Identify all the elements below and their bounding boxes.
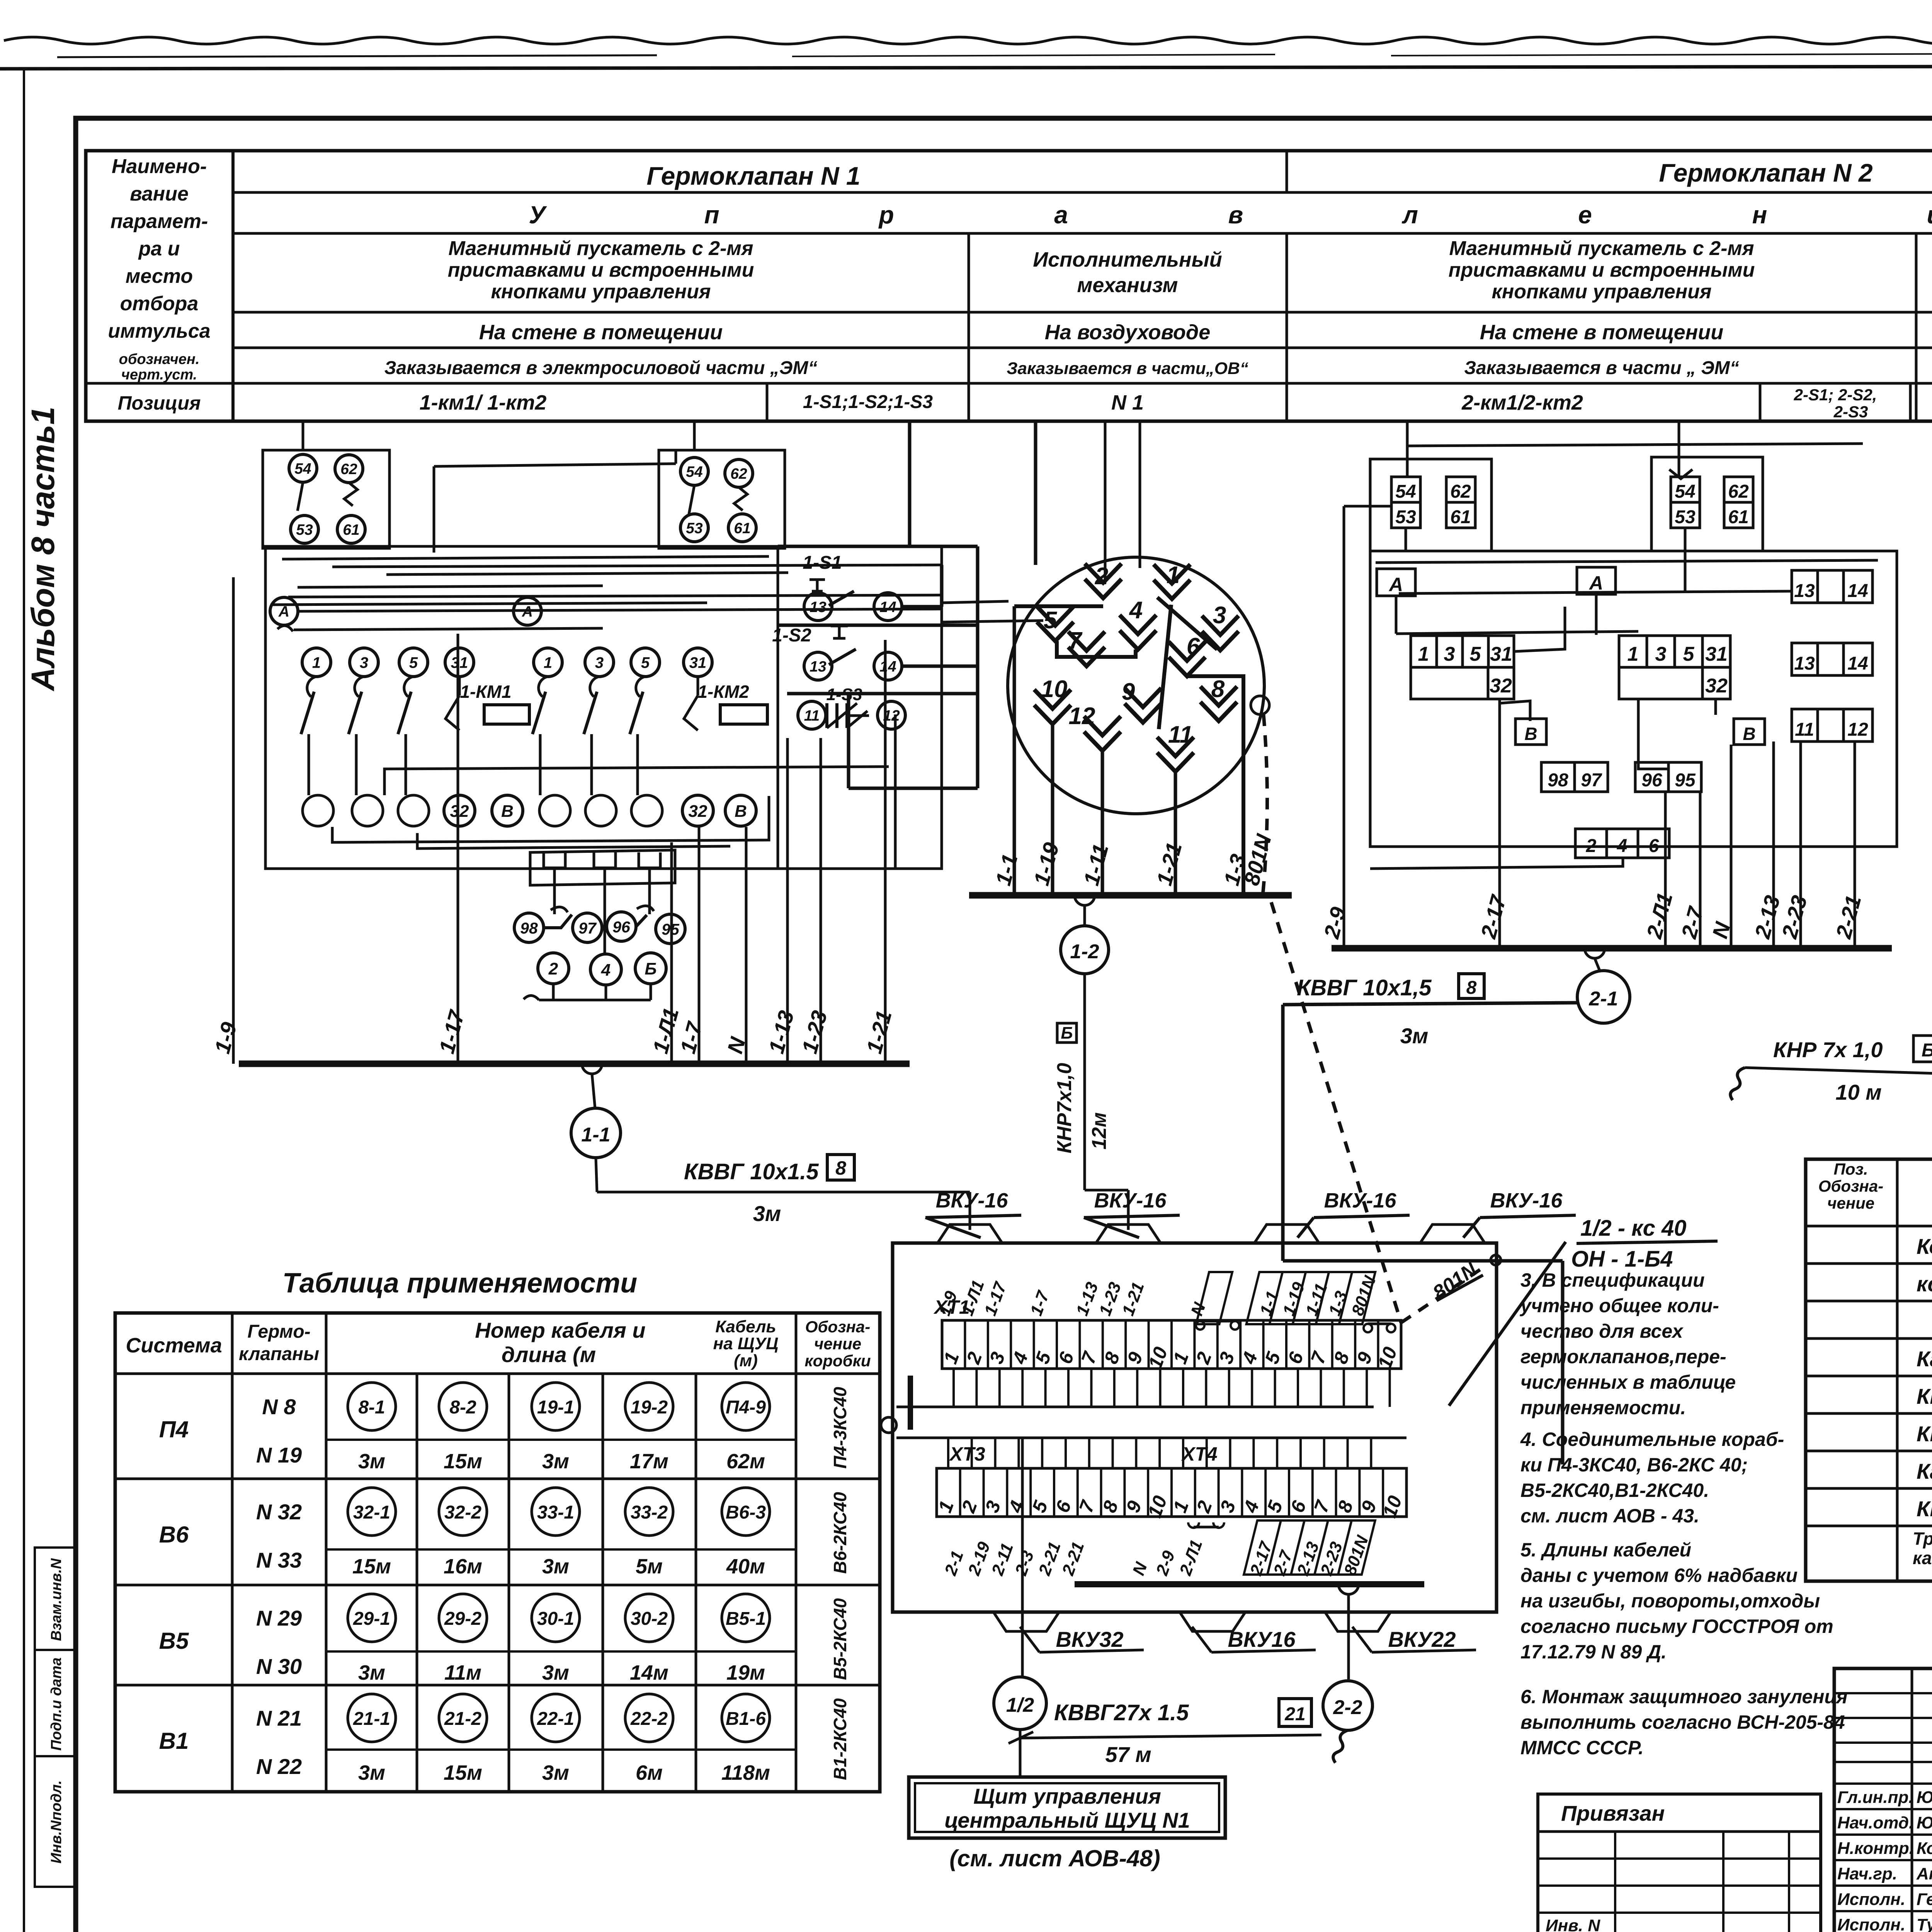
- svg-text:96: 96: [1641, 770, 1662, 791]
- svg-text:Заказывается в части „ ЭМ“: Заказывается в части „ ЭМ“: [1464, 358, 1739, 378]
- XT3 wires up: [947, 1438, 949, 1468]
- N2 13-14 row1: [1792, 570, 1872, 603]
- svg-text:54: 54: [1675, 481, 1695, 502]
- svg-text:кнопками управления: кнопками управления: [1492, 281, 1711, 303]
- svg-text:32: 32: [1705, 675, 1728, 697]
- N2 left enclosure: [1370, 459, 1492, 551]
- N2 V box 2: [1734, 719, 1765, 745]
- XT3-XT4 strip: [937, 1468, 1406, 1517]
- svg-text:Поз.: Поз.: [1834, 1160, 1868, 1178]
- cable circle 2-2 lower: [1323, 1681, 1372, 1730]
- svg-text:В5-2КС40,В1-2КС40.: В5-2КС40,В1-2КС40.: [1520, 1480, 1709, 1501]
- svg-text:3: 3: [1655, 643, 1667, 665]
- svg-text:11: 11: [804, 707, 820, 724]
- svg-text:61: 61: [343, 522, 359, 538]
- x mark on 1-2 wire: [1009, 1732, 1033, 1743]
- svg-text:Гермо-: Гермо-: [247, 1321, 310, 1342]
- svg-text:КВВГ 10х1,5: КВВГ 10х1,5: [1297, 975, 1432, 1000]
- svg-text:Козлов: Козлов: [1917, 1839, 1932, 1858]
- svg-text:Позиция: Позиция: [118, 392, 201, 414]
- svg-text:КВВГ27х 1.5: КВВГ27х 1.5: [1054, 1700, 1189, 1725]
- title block upper rows: [1834, 1692, 1932, 1694]
- svg-text:1: 1: [1418, 643, 1429, 665]
- svg-text:обозначен.: обозначен.: [119, 351, 200, 367]
- svg-text:54: 54: [1395, 481, 1416, 502]
- svg-text:17.12.79 N 89 Д.: 17.12.79 N 89 Д.: [1520, 1641, 1667, 1663]
- svg-text:15м: 15м: [352, 1555, 391, 1578]
- XT1 boxed labels right group: [1196, 1272, 1376, 1324]
- svg-text:А: А: [278, 604, 289, 620]
- N1 long wires to bus: [232, 577, 235, 1064]
- svg-text:30-2: 30-2: [631, 1609, 668, 1629]
- privyazan stamp box: [1538, 1794, 1821, 1932]
- cable 1-2 wire down: [1083, 974, 1086, 1190]
- svg-text:вание: вание: [130, 183, 189, 205]
- svg-text:N 1: N 1: [1111, 391, 1144, 414]
- svg-text:имтульса: имтульса: [108, 320, 210, 342]
- N2 bus: [1332, 945, 1892, 952]
- svg-text:черт.уст.: черт.уст.: [121, 367, 197, 383]
- svg-text:10 м: 10 м: [1835, 1080, 1881, 1104]
- XT1 jumpers: [1196, 1321, 1204, 1330]
- svg-text:9: 9: [1122, 679, 1135, 705]
- svg-text:В: В: [735, 802, 747, 821]
- svg-text:33-1: 33-1: [537, 1502, 574, 1523]
- svg-text:центральный ЩУЦ N1: центральный ЩУЦ N1: [944, 1808, 1190, 1832]
- junction inner bus: [1075, 1581, 1424, 1587]
- XT1 wires down: [952, 1369, 955, 1407]
- svg-text:Исполн.: Исполн.: [1837, 1915, 1905, 1932]
- svg-text:31: 31: [689, 654, 707, 671]
- svg-text:Б: Б: [1061, 1024, 1073, 1043]
- svg-text:62м: 62м: [726, 1450, 765, 1473]
- connector1 pin 8 arrow: [1201, 687, 1237, 721]
- svg-text:3. В спецификации: 3. В спецификации: [1520, 1269, 1705, 1291]
- N2 top wire: [1407, 444, 1863, 446]
- VKU32 trapezoid: [993, 1612, 1059, 1631]
- N2 A box 1: [1377, 569, 1415, 596]
- svg-text:На воздуховоде: На воздуховоде: [1045, 321, 1211, 344]
- svg-text:98: 98: [1548, 770, 1568, 791]
- N1 node A right: [514, 597, 541, 625]
- svg-text:2: 2: [548, 959, 558, 978]
- connector1 pin 12 arrow: [1084, 716, 1121, 751]
- svg-text:КВВГ 10х1.5: КВВГ 10х1.5: [1917, 1384, 1932, 1408]
- svg-text:П4-3КС40: П4-3КС40: [830, 1387, 850, 1469]
- N1 wire mesh horizontals: [282, 556, 769, 559]
- connector1 dashed 801N: [1263, 714, 1267, 895]
- svg-text:ката ТВ-40-230-25 х 1.15ГОСТ 1: ката ТВ-40-230-25 х 1.15ГОСТ 19034-82: [1913, 1548, 1932, 1568]
- svg-text:В5-1: В5-1: [726, 1609, 766, 1629]
- svg-text:32: 32: [450, 802, 469, 821]
- svg-text:А: А: [1588, 572, 1603, 594]
- svg-text:14: 14: [1847, 653, 1868, 674]
- junction left bar: [908, 1376, 913, 1430]
- N2 internal wires: [1498, 699, 1501, 948]
- svg-text:кнопками управления: кнопками управления: [491, 281, 711, 303]
- svg-text:19м: 19м: [726, 1661, 765, 1684]
- svg-text:29-1: 29-1: [353, 1609, 390, 1629]
- VKU-16 trapezoid 1: [937, 1225, 1003, 1244]
- svg-text:см. лист АОВ - 43.: см. лист АОВ - 43.: [1520, 1505, 1699, 1527]
- svg-text:клапаны: клапаны: [239, 1344, 319, 1364]
- svg-text:Привязан: Привязан: [1561, 1801, 1665, 1825]
- N1 thermal relay box: [530, 850, 675, 885]
- svg-text:ВКУ32: ВКУ32: [1056, 1627, 1123, 1651]
- N2 A box 2: [1577, 567, 1616, 594]
- svg-text:3м: 3м: [542, 1661, 569, 1684]
- svg-text:1-1: 1-1: [581, 1124, 610, 1146]
- XT1 right-end jumper: [1364, 1324, 1372, 1332]
- svg-text:длина (м: длина (м: [502, 1342, 596, 1367]
- svg-text:N 32: N 32: [256, 1500, 302, 1524]
- svg-text:19-1: 19-1: [537, 1397, 574, 1418]
- N1 thermal contacts 98-95: [514, 913, 544, 942]
- svg-text:Б: Б: [1922, 1040, 1932, 1061]
- svg-text:Гермоклапан N 2: Гермоклапан N 2: [1659, 158, 1873, 187]
- svg-text:3м: 3м: [358, 1761, 385, 1784]
- svg-text:А: А: [522, 604, 533, 620]
- svg-text:12: 12: [883, 707, 900, 724]
- svg-text:62: 62: [1450, 481, 1471, 502]
- svg-text:а: а: [1054, 201, 1068, 229]
- N1 contact circles row1: [302, 648, 331, 677]
- svg-text:На стене в помещении: На стене в помещении: [479, 321, 723, 344]
- svg-text:В6-2КС40: В6-2КС40: [830, 1492, 850, 1574]
- svg-text:Кабель: Кабель: [715, 1317, 776, 1336]
- svg-text:33-2: 33-2: [631, 1502, 668, 1523]
- svg-text:1-КМ2: 1-КМ2: [697, 682, 749, 702]
- svg-text:В6: В6: [159, 1522, 189, 1548]
- svg-text:В: В: [501, 802, 514, 821]
- svg-text:3м: 3м: [542, 1450, 569, 1473]
- svg-text:7: 7: [1068, 628, 1083, 654]
- N2 wire from table: [1406, 421, 1409, 446]
- wire from table to box1: [302, 421, 304, 450]
- svg-text:N 21: N 21: [256, 1706, 302, 1730]
- 2-2 squiggle end: [1333, 1730, 1348, 1763]
- svg-text:ХТ3: ХТ3: [949, 1443, 985, 1465]
- svg-text:14: 14: [879, 599, 896, 616]
- N1 S wires right: [902, 605, 942, 609]
- svg-text:17м: 17м: [630, 1450, 668, 1473]
- VKU16 trapezoid: [1180, 1612, 1245, 1631]
- svg-text:6м: 6м: [636, 1761, 663, 1784]
- svg-text:32-2: 32-2: [444, 1502, 481, 1523]
- svg-text:в: в: [1228, 201, 1243, 229]
- svg-text:4. Соединительные кораб-: 4. Соединительные кораб-: [1520, 1429, 1784, 1450]
- svg-text:ВКУ-16: ВКУ-16: [936, 1189, 1009, 1212]
- cable KNR 2-2 wire: [1745, 1068, 1932, 1078]
- svg-text:КНР7х1,0: КНР7х1,0: [1053, 1063, 1076, 1153]
- XT3 boxed labels right group: [1244, 1520, 1375, 1575]
- svg-text:применяемости.: применяемости.: [1520, 1397, 1686, 1418]
- svg-text:Альбом 8 часть1: Альбом 8 часть1: [25, 406, 61, 691]
- svg-text:29-2: 29-2: [444, 1609, 481, 1629]
- connector1 pin 1 arrow: [1154, 565, 1190, 599]
- N1 bus tap: [582, 1064, 602, 1074]
- svg-text:3м: 3м: [1400, 1024, 1429, 1048]
- N2 11-12 row: [1792, 709, 1872, 742]
- VKU-16 trapezoid 4: [1420, 1225, 1485, 1244]
- N1 breaker contacts: [307, 677, 316, 697]
- svg-text:14: 14: [879, 658, 896, 675]
- svg-text:1-S1: 1-S1: [803, 553, 842, 573]
- wire table to connector1 pin2: [1104, 421, 1107, 582]
- svg-text:5: 5: [1044, 607, 1058, 634]
- svg-text:кс-40: кс-40: [1917, 1272, 1932, 1296]
- svg-text:N 29: N 29: [256, 1606, 302, 1630]
- svg-text:21-2: 21-2: [444, 1709, 481, 1729]
- svg-text:53: 53: [1675, 507, 1696, 527]
- svg-text:5: 5: [641, 654, 650, 671]
- svg-text:Юдин: Юдин: [1917, 1813, 1932, 1832]
- svg-text:парамет-: парамет-: [111, 210, 208, 233]
- N1 cable circle 1-1: [571, 1108, 621, 1158]
- wire table to connector1 left: [1034, 421, 1037, 565]
- svg-text:31: 31: [1490, 643, 1512, 665]
- N1 bus: [239, 1061, 910, 1067]
- svg-text:5м: 5м: [636, 1555, 663, 1578]
- svg-text:на ЩУЦ: на ЩУЦ: [713, 1334, 779, 1353]
- N2 wire mesh: [1344, 505, 1391, 508]
- N2 terminal strip 1: [1411, 636, 1514, 667]
- svg-text:96: 96: [612, 918, 631, 936]
- svg-text:15м: 15м: [444, 1761, 482, 1784]
- svg-text:учтено общее коли-: учтено общее коли-: [1519, 1295, 1719, 1316]
- N2 98-97 cells: [1541, 762, 1608, 792]
- N1 S-switch box: [777, 546, 779, 869]
- svg-text:13: 13: [810, 658, 827, 675]
- svg-text:1: 1: [1628, 643, 1639, 665]
- svg-text:13: 13: [810, 599, 827, 616]
- svg-text:57 м: 57 м: [1105, 1742, 1151, 1767]
- svg-text:N 22: N 22: [256, 1754, 302, 1779]
- svg-text:14м: 14м: [630, 1661, 668, 1684]
- svg-text:В: В: [1743, 724, 1755, 744]
- svg-text:КНР 7х 1,0: КНР 7х 1,0: [1773, 1037, 1883, 1062]
- cable circle 1-2: [1061, 926, 1109, 974]
- svg-text:19-2: 19-2: [631, 1397, 668, 1418]
- svg-text:2-S3: 2-S3: [1833, 403, 1868, 421]
- svg-text:53: 53: [686, 520, 703, 537]
- svg-text:1-S1;1-S2;1-S3: 1-S1;1-S2;1-S3: [803, 392, 933, 412]
- applicability table outer: [115, 1313, 880, 1792]
- svg-text:3: 3: [360, 654, 368, 671]
- svg-text:32: 32: [1490, 675, 1512, 697]
- wire from table to box2: [693, 421, 696, 450]
- N1 enclosure: [265, 546, 942, 869]
- svg-text:15м: 15м: [444, 1450, 482, 1473]
- svg-text:22-1: 22-1: [537, 1709, 574, 1729]
- svg-text:11: 11: [1795, 719, 1814, 740]
- svg-text:5: 5: [409, 654, 418, 671]
- svg-text:У: У: [529, 201, 547, 229]
- svg-text:1-2: 1-2: [1070, 940, 1099, 963]
- svg-text:Обозна-: Обозна-: [805, 1318, 870, 1336]
- svg-text:8: 8: [1211, 676, 1225, 702]
- connector1 pin 4 arrow: [1120, 615, 1156, 650]
- svg-text:12: 12: [1069, 703, 1095, 730]
- svg-text:62: 62: [340, 461, 357, 478]
- svg-text:ММСС СССР.: ММСС СССР.: [1520, 1737, 1644, 1759]
- header table sub-box 2-S: [1760, 383, 1910, 421]
- VKU-16 trapezoid 2: [1095, 1225, 1161, 1244]
- N2 terminal strip 2: [1619, 636, 1730, 667]
- N1 pushbutton box 2: [659, 450, 785, 548]
- svg-text:гермоклапанов,пере-: гермоклапанов,пере-: [1520, 1346, 1726, 1367]
- svg-text:8: 8: [835, 1157, 846, 1179]
- svg-text:Номер кабеля и: Номер кабеля и: [475, 1318, 645, 1342]
- svg-text:коробки: коробки: [804, 1352, 871, 1370]
- svg-text:6. Монтаж защитного зануления: 6. Монтаж защитного зануления: [1520, 1686, 1847, 1708]
- svg-text:н: н: [1752, 201, 1767, 229]
- svg-text:4: 4: [601, 961, 611, 980]
- svg-text:31: 31: [1705, 643, 1728, 665]
- svg-text:чение: чение: [814, 1335, 861, 1353]
- svg-text:2-S1; 2-S2,: 2-S1; 2-S2,: [1794, 386, 1877, 404]
- svg-text:П4: П4: [159, 1417, 189, 1442]
- svg-text:Магнитный пускатель с 2-мя: Магнитный пускатель с 2-мя: [1449, 237, 1754, 260]
- svg-text:ХТ4: ХТ4: [1181, 1443, 1218, 1465]
- left stamp strip boxes: [35, 1548, 76, 1887]
- connector1 central slant: [1159, 605, 1171, 729]
- connector1 pin 7 arrow: [1068, 632, 1105, 666]
- svg-text:чение: чение: [1827, 1194, 1874, 1212]
- svg-text:ВКУ16: ВКУ16: [1228, 1627, 1296, 1651]
- svg-text:61: 61: [1728, 507, 1748, 527]
- wire to circle 1-2 bottom: [1021, 1438, 1024, 1677]
- svg-text:N 8: N 8: [262, 1395, 296, 1419]
- N1 cable wire down: [596, 1158, 597, 1192]
- cable circle 1/2: [994, 1677, 1046, 1730]
- svg-text:В5-2КС40: В5-2КС40: [830, 1598, 850, 1680]
- svg-text:N 19: N 19: [256, 1443, 302, 1467]
- XT1 strip: [942, 1320, 1401, 1369]
- svg-text:1-км1/ 1-кт2: 1-км1/ 1-кт2: [420, 391, 547, 414]
- svg-text:В6-3: В6-3: [726, 1502, 766, 1523]
- svg-text:61: 61: [1450, 507, 1471, 527]
- VKU-16 trapezoid 3: [1254, 1225, 1320, 1244]
- svg-text:30-1: 30-1: [537, 1609, 574, 1629]
- svg-text:6: 6: [1187, 633, 1200, 660]
- scan top edge torn line: [4, 37, 1932, 44]
- svg-text:отбора: отбора: [120, 293, 199, 315]
- connector1 bus tap: [1075, 895, 1095, 905]
- N2 main enclosure: [1370, 551, 1897, 847]
- junction box: [893, 1243, 1497, 1612]
- junction rail A: [896, 1406, 1374, 1408]
- XT3 jumper: [1188, 1522, 1224, 1528]
- svg-text:л: л: [1401, 201, 1418, 229]
- cable circle 2-1: [1577, 971, 1630, 1023]
- svg-text:Щит управления: Щит управления: [973, 1784, 1161, 1808]
- svg-text:1: 1: [544, 654, 552, 671]
- header table horizontal lines: [233, 191, 1932, 194]
- svg-text:21-1: 21-1: [353, 1709, 390, 1729]
- applicability table horizontals: [115, 1372, 880, 1375]
- svg-text:Гл.ин.пр.: Гл.ин.пр.: [1837, 1788, 1913, 1807]
- N1 pushbutton box 1: [263, 450, 389, 548]
- svg-text:97: 97: [1581, 770, 1602, 791]
- connector1 pin 10 arrow: [1034, 690, 1071, 724]
- svg-text:Кабель ГОСТ 1508-78*Е: Кабель ГОСТ 1508-78*Е: [1917, 1347, 1932, 1371]
- svg-text:Коробка соединительная: Коробка соединительная: [1917, 1234, 1932, 1259]
- svg-text:11: 11: [1168, 721, 1193, 748]
- svg-text:согласно письму ГОССТРОЯ от: согласно письму ГОССТРОЯ от: [1520, 1616, 1833, 1637]
- connector1 diagonal 1-3: [1157, 597, 1217, 650]
- svg-text:Система: Система: [126, 1334, 222, 1357]
- svg-text:98: 98: [520, 919, 538, 937]
- N2 bus tap: [1585, 948, 1605, 958]
- N1 thermal wires down: [553, 868, 556, 914]
- connector1 pin 2 arrow: [1085, 564, 1122, 598]
- svg-text:ра и: ра и: [138, 238, 180, 260]
- svg-text:8-2: 8-2: [449, 1397, 476, 1418]
- svg-text:ВКУ22: ВКУ22: [1388, 1627, 1456, 1651]
- connector1 wire drops: [1013, 606, 1016, 895]
- connector1 link bar pins 5-4: [1057, 641, 1136, 657]
- svg-text:3: 3: [1213, 602, 1226, 629]
- svg-text:место: место: [126, 265, 193, 287]
- svg-text:Антохина: Антохина: [1916, 1864, 1932, 1883]
- svg-text:3м: 3м: [358, 1450, 385, 1473]
- N2 2-4-6 cells: [1575, 829, 1669, 858]
- svg-text:5: 5: [1683, 643, 1695, 665]
- svg-text:32-1: 32-1: [353, 1502, 390, 1523]
- svg-text:3м: 3м: [358, 1661, 385, 1684]
- svg-text:Взам.инв.N: Взам.инв.N: [48, 1558, 65, 1641]
- svg-text:2-1: 2-1: [1588, 988, 1618, 1010]
- svg-text:Обозна-: Обозна-: [1818, 1177, 1883, 1195]
- N2 13-14 row2: [1792, 643, 1872, 675]
- svg-text:численных в таблице: численных в таблице: [1520, 1371, 1736, 1393]
- svg-text:и: и: [1927, 201, 1932, 229]
- connector1 pin 11 arrow: [1157, 737, 1194, 772]
- 801N dashed into box: [1271, 902, 1401, 1323]
- svg-text:5. Длины кабелей: 5. Длины кабелей: [1520, 1539, 1691, 1561]
- svg-text:В1-6: В1-6: [726, 1709, 766, 1729]
- connector1 link 6 right: [1187, 676, 1243, 895]
- N1 aux bottom wires: [552, 984, 555, 1000]
- junction inner top line: [1283, 1259, 1563, 1263]
- svg-text:Исполн.: Исполн.: [1837, 1890, 1905, 1909]
- N2 V box 1: [1515, 719, 1546, 745]
- wire table to connector1 pin1: [1139, 421, 1141, 568]
- svg-text:10: 10: [1041, 676, 1068, 702]
- svg-text:Заказывается в части„ОВ“: Заказывается в части„ОВ“: [1007, 359, 1248, 378]
- svg-text:В1-2КС40: В1-2КС40: [830, 1698, 850, 1780]
- svg-text:ОН - 1-Б4: ОН - 1-Б4: [1571, 1247, 1673, 1272]
- connector1 rim circle 801N: [1251, 696, 1269, 714]
- page top rule: [0, 66, 1932, 69]
- svg-text:Наимено-: Наимено-: [112, 155, 207, 178]
- N1 contact circles row2: [303, 795, 333, 826]
- N1 hook symbol: [277, 626, 293, 631]
- svg-text:1: 1: [1167, 562, 1180, 588]
- N1 inner bus path: [384, 767, 889, 795]
- svg-text:97: 97: [578, 919, 597, 937]
- svg-text:32: 32: [689, 802, 707, 821]
- N1 S area separators: [778, 545, 978, 548]
- svg-text:54: 54: [686, 464, 703, 480]
- svg-text:12м: 12м: [1088, 1112, 1111, 1150]
- N1 node A left: [270, 597, 298, 625]
- svg-text:КВВГ 27х1.5: КВВГ 27х1.5: [1917, 1422, 1932, 1446]
- title block outer: [1834, 1668, 1932, 1932]
- svg-text:ВКУ-16: ВКУ-16: [1094, 1189, 1167, 1212]
- svg-text:14: 14: [1847, 581, 1868, 601]
